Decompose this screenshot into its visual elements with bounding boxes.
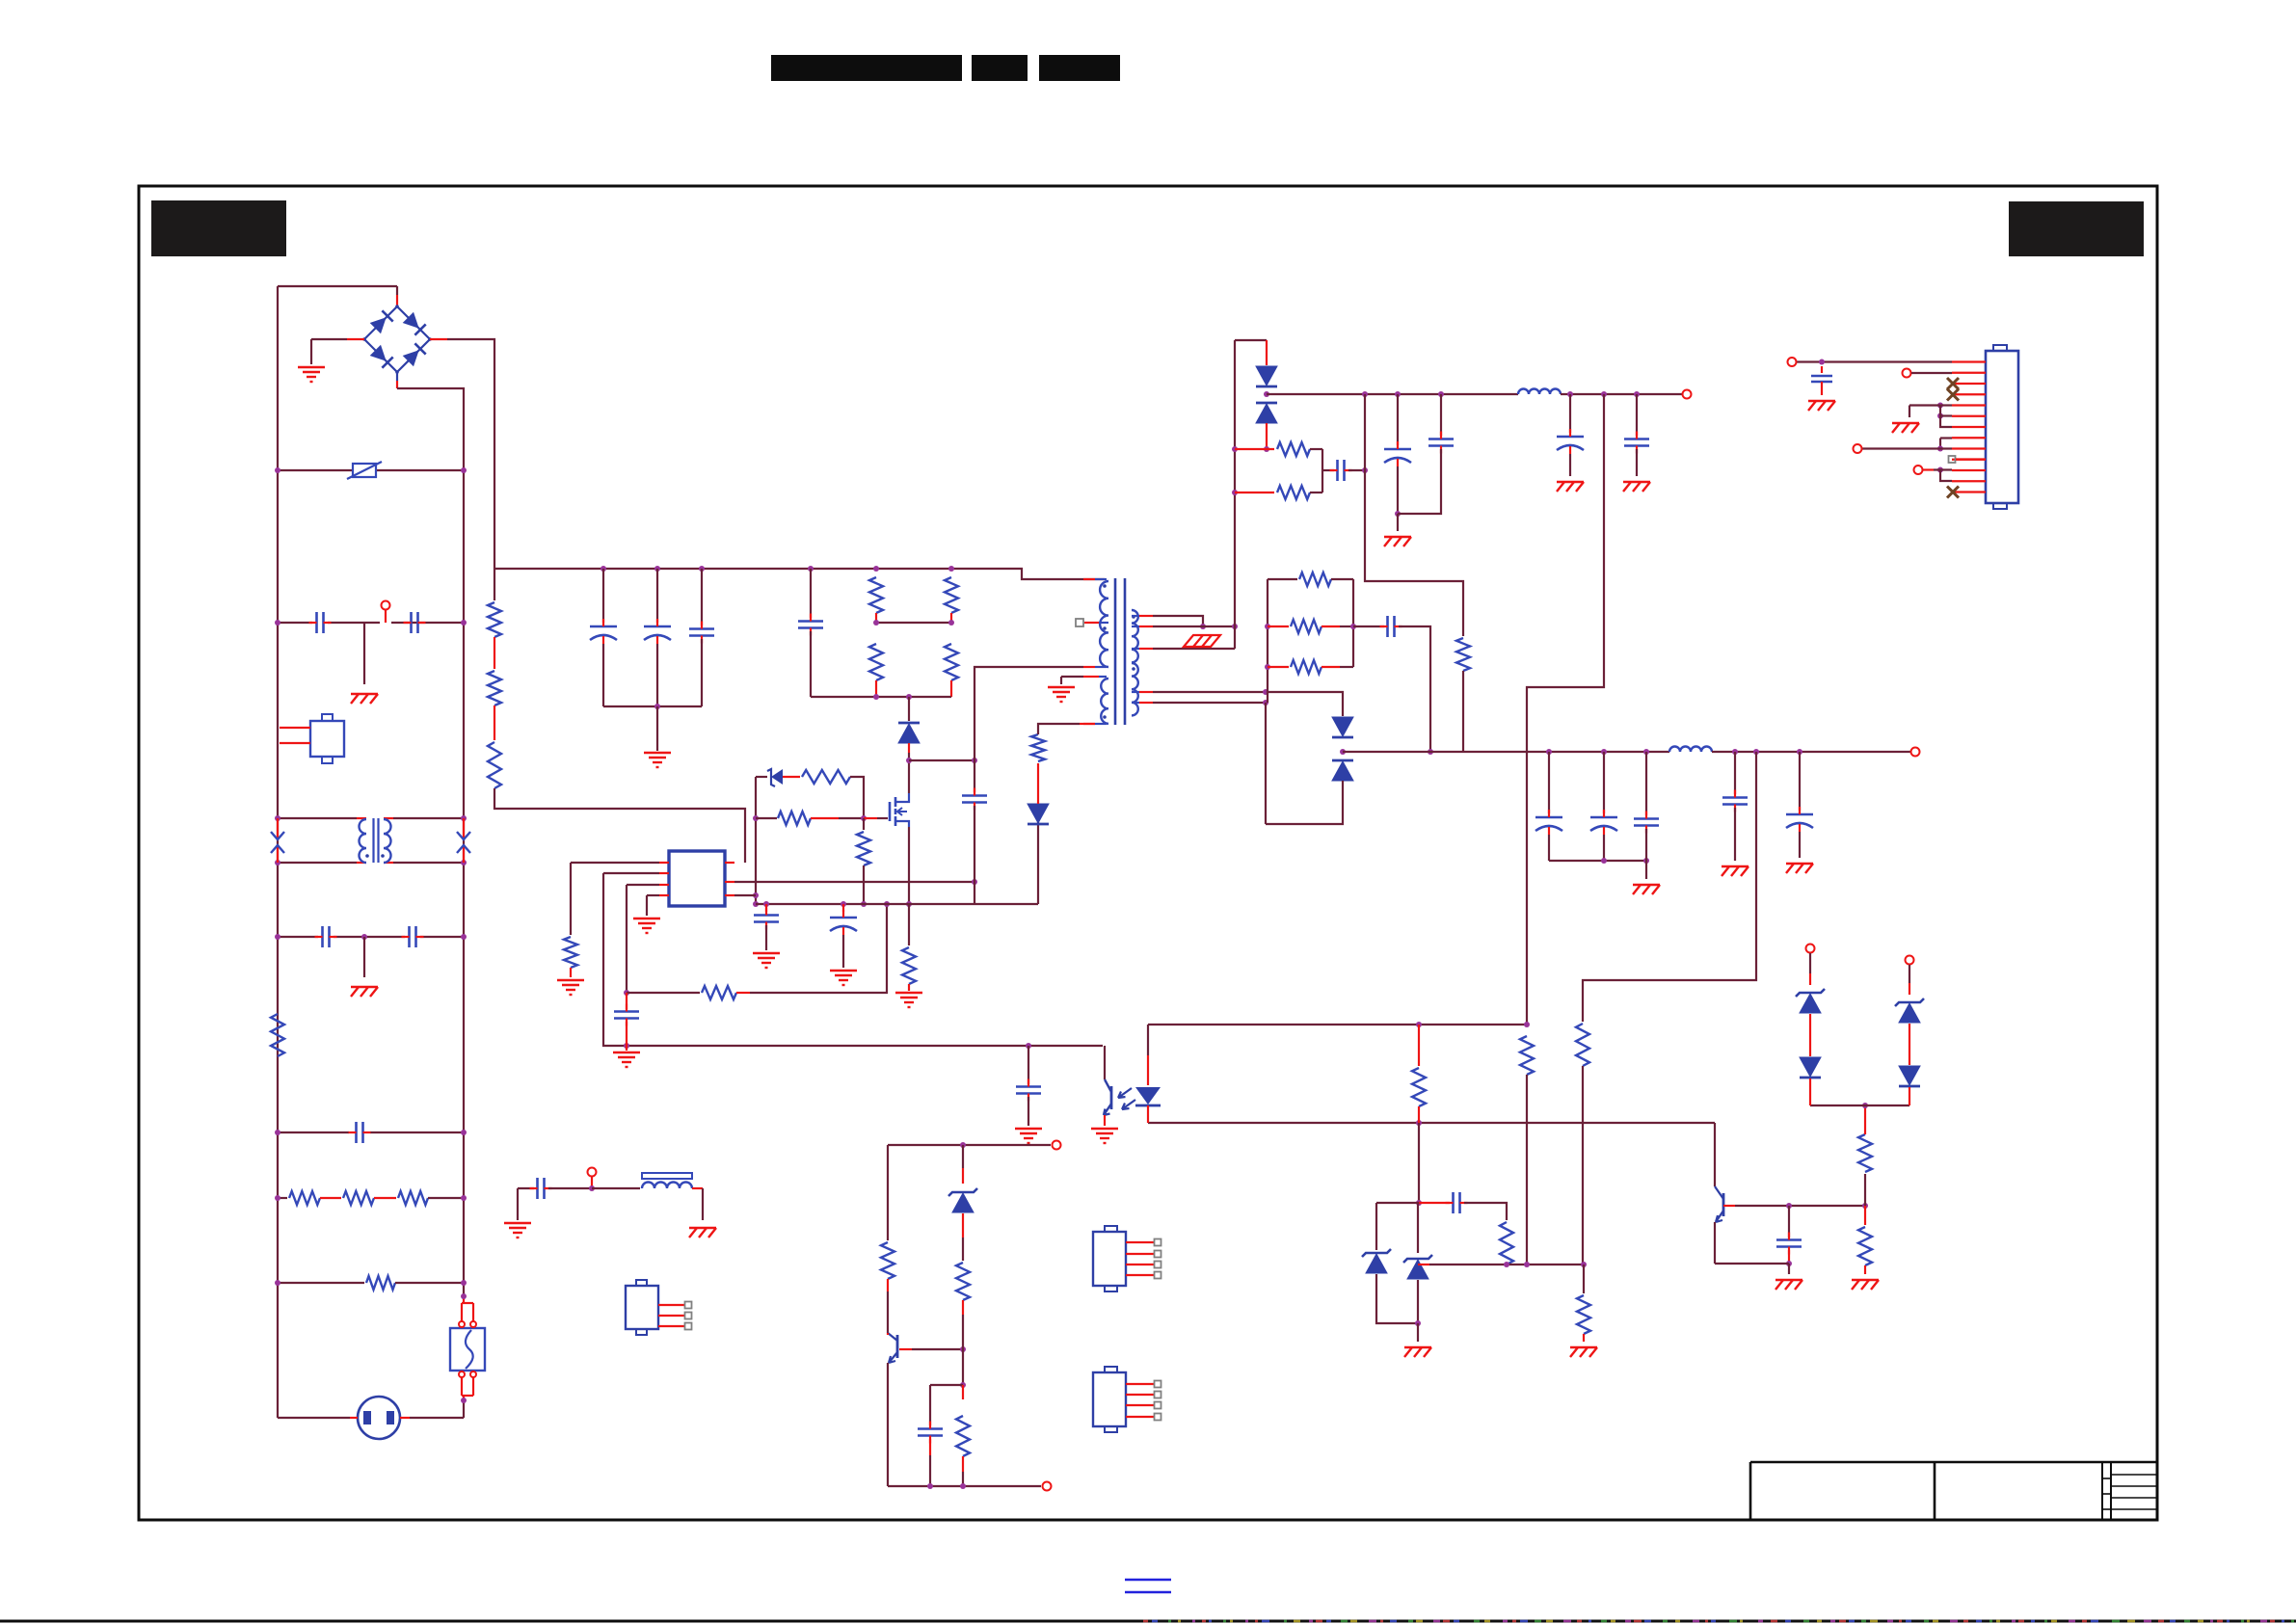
wire diode top link [1235,339,1267,341]
capacitor source filter [765,904,767,912]
wire -5V left rail [887,1145,889,1240]
wire to inductor [548,1187,590,1189]
capacitor 5V out C5 [1397,394,1399,445]
capacitor C lower [355,1122,358,1143]
ground line-filter [504,1222,531,1224]
ground source sense [895,992,922,994]
capacitor CX2 [410,612,413,633]
aux supply diode branch [1037,822,1039,904]
wire sense drop from C snubber [1365,394,1463,636]
diode D5a [1266,340,1268,365]
transformer aux winding [1061,676,1083,678]
wire OVP bottom [1810,1105,1909,1106]
opto light arrows [1118,1088,1132,1098]
resistor gate loop top [802,770,850,784]
secondary pin stubs [1132,615,1139,617]
bridge rectifier BD1 [396,286,398,295]
ground phototransistor [1091,1128,1118,1130]
wire pin3 chain [627,884,659,886]
wire Q2 emitter row [1715,1263,1789,1265]
wire bridge left to ground [347,338,364,340]
snubber resistor R4a [869,577,883,613]
connector CN2 main output [1986,351,2018,503]
zener ZD2 left [1375,1203,1377,1250]
ground opto filter [1015,1128,1042,1130]
wire cap bank bottom [603,706,702,707]
wire snubber 5V right [1322,449,1323,493]
resistor divider lower leg [1583,1265,1585,1293]
resistor chain R2 [494,637,495,669]
ground C8 [1623,481,1650,483]
diode OVP left [1800,1057,1821,1077]
resistor chain top R1 [494,568,495,600]
capacitor Q2 base [1788,1206,1790,1238]
capacitor CN2 filter [1821,366,1823,373]
resistor gate-source [863,818,865,830]
resistor OVP sum [1864,1174,1866,1206]
connector CN5 [1093,1372,1126,1426]
ground 5V caps [1384,536,1411,538]
wire RC corner [930,1384,963,1386]
wire Y-cap ground stem [363,937,365,977]
wire sec pin4 to D2 [1153,692,1343,716]
ground base resistor [1852,1279,1879,1281]
wire main HV bus [494,569,1105,579]
capacitor 12V C9 [1548,752,1550,813]
wire VCC row [734,881,974,883]
snubber resistor R5b [945,644,958,680]
wire CN2 pins8-9 [1940,437,1952,439]
capacitor VCC [842,904,844,912]
stub filter block [280,727,310,729]
thermal fuse F1 [450,1328,485,1371]
snubber 5V resistor top [1235,448,1274,450]
capacitor 5V out C7 [1569,394,1571,433]
wire bridge right [430,338,447,340]
wire CN2 pins5-7 ground [1937,403,1943,409]
resistor 12V sense [1576,1024,1589,1066]
wire sec pin3 [1153,648,1235,650]
capacitor -5V [918,1427,943,1430]
IC U1 PWM controller [669,851,725,906]
diode D12a [1332,717,1353,736]
transistor Q2 [1714,1123,1716,1186]
schematic border frame [139,186,2157,1520]
inrush resistor row [278,1282,364,1284]
capacitor 5V out C8 [1636,394,1638,436]
snubber 12V network [1267,579,1268,703]
wire snubber riser [1234,340,1236,649]
diode D5b [1256,404,1277,423]
title block [1750,1461,2157,1464]
wire to MOSFET drain [908,753,910,793]
ground pin1 [557,979,584,981]
resistor aux [1031,734,1045,761]
wire left rail [277,286,279,1418]
wire line-filter left [517,1188,519,1220]
ground source filter [753,952,780,954]
wire gate loop left [755,777,757,904]
varistor RV1 row [278,469,353,471]
wire pin2 chain to opto [603,872,659,874]
no-connect pin10 square [1949,456,1956,463]
test point terminal [382,601,390,610]
wire sec pin5 [1153,702,1266,704]
diode OVP right [1899,1066,1920,1085]
phase arrows on rails [277,818,279,839]
capacitor opto filter [1028,1046,1029,1084]
zener OVP left [1806,945,1815,953]
no-connect pin13 [1947,487,1959,498]
wire -5V top row [888,1144,1051,1146]
wire drain snubber row [909,759,974,761]
ground X-cap [351,693,378,695]
transistor Q3 [896,1335,899,1358]
capacitor snubber 12V [1353,626,1384,627]
shield bead symbol [1184,635,1220,647]
capacitor line-filter [536,1178,539,1199]
wire primary bottom to drain node [974,667,1083,760]
wire LED supply row [1148,1024,1527,1025]
bulk capacitor C1 [602,569,604,623]
resistor -5V mid [962,1238,964,1261]
ground aux [1048,686,1075,688]
ground C13 [1786,863,1813,865]
ground cap bank [644,752,671,754]
capacitor CY1 [321,926,324,947]
fuse wiring top [463,1296,465,1303]
resistor discharge on left rail [271,1014,284,1056]
ground VCC cap [830,970,857,972]
resistor gate loop mid [756,817,777,819]
connector CN3 3-pin [626,1286,658,1329]
wire Q3 base [899,1348,912,1350]
wire CN2 pin1 5V [1797,360,1952,362]
ground pin3 [613,1052,640,1053]
wire Q2 base row [1723,1205,1735,1207]
optocoupler LED [1147,1025,1149,1055]
wire LED cathode row [1148,1122,1715,1124]
primary tap [1076,619,1083,626]
transformer secondary winding upper [1132,610,1138,662]
capacitor 5V out C6 [1440,394,1442,436]
wire source return row [734,894,756,896]
resistor source sense [908,904,910,945]
X-cap row [278,622,312,624]
capacitor CX1 [315,612,318,633]
revision double underline (blue) [1125,1579,1171,1582]
wire -5V bottom row [888,1485,1041,1487]
ground Y-cap [351,986,378,988]
wire inductor to ground [692,1187,703,1189]
wire gate stub [864,817,877,819]
zener OVP right [1906,956,1914,965]
ground divider [1570,1346,1597,1348]
wire 12V rail [1343,751,1669,753]
wire CN2 pins11-12 [1914,466,1923,474]
redaction bar top 1 [771,55,962,81]
ground C7 [1557,481,1584,483]
resistor chain R3 [494,706,495,740]
transformer secondary winding lower [1132,663,1138,715]
wire MOSFET source [908,827,910,904]
zener ZD1 gate clamp loop [756,776,767,778]
ground TL431 [1404,1346,1431,1348]
snubber resistor R4b [945,577,958,613]
resistor LED bias [1418,1025,1420,1066]
wire 12V sense line [1583,752,1756,1022]
CN2 pin stubs [1952,360,1986,362]
capacitor C3 [701,569,703,626]
ground C12 [1722,865,1749,867]
wire aux to ground [1060,677,1062,684]
optocoupler phototransistor [1104,1046,1106,1079]
capacitor CY2 [408,926,411,947]
wire reference row [1418,1264,1429,1265]
MOSFET Q1 [889,802,892,821]
ground Q2 [1775,1279,1802,1281]
common-mode choke L1 [278,817,357,819]
capacitor 12V C10 [1603,752,1605,813]
resistor 5V preload [1456,638,1470,671]
capacitor 12V C11 [1645,752,1647,815]
ground pin4 [633,918,660,919]
page bottom colored dashes [1143,1620,1148,1623]
wire pin4 ground [647,894,659,896]
inductor with core bar [642,1183,692,1188]
page bottom rule [0,1620,2296,1623]
wire chain to IC pin [494,788,745,863]
wire sec pin2 [1153,626,1235,627]
resistor Q2 base-gnd [1864,1206,1866,1225]
transformer primary winding [1083,578,1095,580]
resistor feedback row [627,992,700,994]
ground CN2 [1892,422,1919,424]
filter block component [310,721,344,757]
resistor -5V left [881,1242,894,1279]
capacitor comp network [1376,1202,1419,1204]
diode D1 clamp [908,697,910,721]
varistor RV1 [353,464,376,477]
capacitor pin3 [626,993,627,1009]
wire plug right [400,1417,410,1419]
wire CX1 to ground [363,623,365,684]
wire 12V cap bottoms [1549,860,1646,862]
ground bridge [298,366,325,368]
redaction box top-right [2009,201,2144,256]
Y-cap row [278,936,318,938]
wire 5V rail [1267,393,1518,395]
redaction box top-left [151,200,286,256]
TL431 / zener ZD3 [1417,1203,1419,1253]
resistor 5V sense divider [1520,1036,1534,1075]
cap row lower [278,1131,349,1133]
capacitor 12V C12 [1734,752,1736,794]
wire bridge bottom [396,372,398,381]
wire 5V sense line [1527,394,1604,1025]
ground CN2 filter [1808,400,1835,402]
wire sec pin1 [1153,616,1203,626]
ground line-filter right [689,1227,716,1229]
wire pin1 chain [571,862,659,864]
bulk capacitor C2 [656,569,658,623]
series resistor row [278,1197,287,1199]
capacitor 12V C13 [1799,752,1801,811]
ground 12V caps [1633,884,1660,886]
wire snubber link [876,622,951,624]
wire plug left [278,1417,350,1419]
capacitor drain-source snubber [974,760,975,792]
wire TL431 cathode [1418,1123,1420,1203]
capacitor snubber 5V [1322,469,1334,471]
connector CN4 [1093,1232,1126,1286]
no-connect pin3 [1947,378,1959,389]
zener -5V [962,1145,964,1168]
resistor pin1 [564,937,577,968]
fuse wiring bottom [461,1377,463,1396]
terminal line-filter [588,1168,597,1177]
AC plug P1 [358,1397,400,1439]
transformer core [1114,578,1117,725]
wire sec pin5 drop [1265,703,1267,824]
wire AC top [278,285,397,287]
capacitor C4 snubber [810,569,812,618]
no-connect pin4 [1947,389,1959,401]
redaction bar top 3 [1039,55,1120,81]
snubber 5V resistor bottom [1232,490,1238,495]
diode D12b [1332,761,1353,781]
IC pin stubs [659,862,669,864]
wire snubber bottom [811,696,951,698]
redaction bar top 2 [972,55,1028,81]
resistor -5V lower [962,1385,964,1399]
snubber resistor R5a [869,644,883,680]
wire CN2 pin2 [1903,369,1911,378]
resistor comp network [1500,1222,1513,1265]
